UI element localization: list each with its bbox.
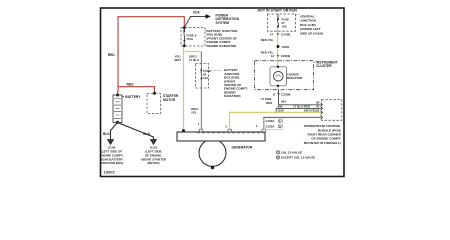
- svg-text:904: 904: [281, 100, 286, 104]
- svg-text:SIDE OF DASH): SIDE OF DASH): [300, 31, 323, 35]
- svg-text:CLUSTER: CLUSTER: [316, 64, 332, 68]
- svg-text:1140: 1140: [278, 108, 285, 112]
- svg-text:JUNCTION BOX): JUNCTION BOX): [100, 161, 124, 165]
- svg-text:10A: 10A: [203, 76, 209, 80]
- svg-text:EXCEPT 3.8L 12-VALVE: EXCEPT 3.8L 12-VALVE: [281, 156, 316, 160]
- svg-text:MOTOR: MOTOR: [163, 98, 176, 102]
- svg-text:RADIATOR): RADIATOR): [224, 94, 241, 98]
- svg-text:10A: 10A: [282, 24, 288, 28]
- svg-text:HOT IN START OR RUN: HOT IN START OR RUN: [258, 8, 298, 12]
- svg-text:116072: 116072: [104, 171, 115, 175]
- svg-text:C103A: C103A: [266, 124, 276, 128]
- svg-text:3.8L 12-VALVE: 3.8L 12-VALVE: [281, 151, 302, 155]
- svg-text:RED: RED: [108, 53, 116, 57]
- svg-text:BLK: BLK: [103, 132, 110, 136]
- svg-text:BEHIND RADIATOR): BEHIND RADIATOR): [207, 44, 237, 48]
- svg-text:20: 20: [316, 109, 320, 113]
- svg-text:BATTERY: BATTERY: [125, 95, 141, 99]
- svg-text:16: 16: [271, 54, 275, 58]
- svg-text:C103A: C103A: [266, 119, 276, 123]
- svg-text:C220B: C220B: [281, 93, 291, 97]
- svg-text:GENERATOR: GENERATOR: [232, 145, 253, 149]
- svg-text:WHT: WHT: [174, 58, 181, 62]
- svg-text:RED: RED: [127, 83, 135, 87]
- svg-text:9CA: 9CA: [193, 11, 200, 15]
- svg-text:INDICATOR: INDICATOR: [287, 76, 304, 80]
- svg-text:175A: 175A: [186, 37, 194, 41]
- svg-text:RED-YEL: RED-YEL: [261, 38, 274, 42]
- svg-text:RED: RED: [266, 101, 272, 105]
- svg-text:+: +: [122, 95, 124, 99]
- svg-text:LT BLU: LT BLU: [189, 58, 199, 62]
- svg-text:27: 27: [270, 32, 274, 36]
- svg-text:MOTOR): MOTOR): [147, 161, 159, 165]
- svg-text:S206: S206: [282, 45, 289, 49]
- svg-text:SYSTEM: SYSTEM: [216, 21, 230, 25]
- svg-text:C220B: C220B: [281, 54, 291, 58]
- svg-text:GRY/YEL: GRY/YEL: [304, 108, 317, 112]
- svg-text:C270B: C270B: [281, 32, 291, 36]
- svg-text:MOUNTED IN FIREWALL): MOUNTED IN FIREWALL): [304, 141, 341, 145]
- svg-text:BLK: BLK: [143, 132, 150, 136]
- svg-text:YEL: YEL: [191, 111, 197, 115]
